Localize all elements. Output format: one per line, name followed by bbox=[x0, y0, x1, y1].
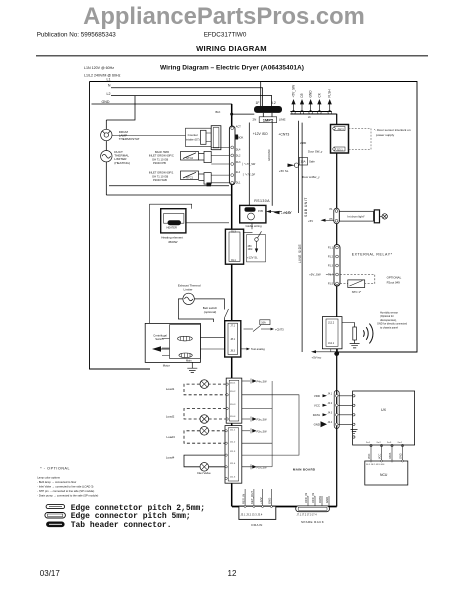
svg-text:Switch: Switch bbox=[155, 337, 164, 341]
svg-text:OPTIONAL: OPTIONAL bbox=[387, 275, 402, 279]
svg-text:- NTP pin → connected to line: - NTP pin → connected to line side (SP m… bbox=[37, 489, 94, 493]
svg-text:(Optional for: (Optional for bbox=[380, 315, 394, 318]
svg-text:DATA: DATA bbox=[313, 413, 320, 417]
svg-text:J3.1 J3.2 J3.3 J3.4: J3.1 J3.2 J3.3 J3.4 bbox=[241, 512, 263, 516]
svg-text:BLK: BLK bbox=[216, 110, 221, 114]
svg-text:J11.1: J11.1 bbox=[230, 430, 236, 432]
svg-text:P1.4: P1.4 bbox=[328, 274, 334, 277]
svg-text:L2: L2 bbox=[107, 92, 111, 96]
svg-text:VCC: VCC bbox=[379, 454, 382, 459]
svg-text:2a.3: 2a.3 bbox=[387, 442, 392, 444]
svg-text:P.05: P.05 bbox=[258, 209, 264, 213]
svg-text:UX: UX bbox=[381, 408, 387, 412]
svg-text:J11.4: J11.4 bbox=[230, 463, 236, 465]
svg-text:+12V: +12V bbox=[259, 497, 263, 504]
svg-text:DL4: DL4 bbox=[236, 149, 241, 152]
svg-text:J10.2: J10.2 bbox=[230, 391, 236, 393]
svg-text:2n: 2n bbox=[308, 115, 311, 119]
svg-text:▏*+7V_DF: ▏*+7V_DF bbox=[242, 172, 256, 176]
svg-text:P1.1: P1.1 bbox=[328, 247, 334, 250]
svg-text:BACK 5965: BACK 5965 bbox=[155, 150, 170, 154]
svg-text:03/17: 03/17 bbox=[40, 569, 61, 578]
svg-text:GND: GND bbox=[400, 453, 403, 459]
svg-text:J8.1: J8.1 bbox=[230, 338, 235, 341]
svg-text:LINE SIDE: LINE SIDE bbox=[298, 244, 302, 263]
svg-text:P2040 5HB: P2040 5HB bbox=[153, 178, 167, 182]
svg-text:CK: CK bbox=[317, 92, 321, 97]
svg-text:+12V ISO: +12V ISO bbox=[253, 132, 268, 136]
svg-text:P2040 IPB: P2040 IPB bbox=[153, 161, 166, 165]
svg-text:+12V SL: +12V SL bbox=[247, 256, 258, 260]
svg-text:AppliancePartsPros.com: AppliancePartsPros.com bbox=[83, 3, 365, 30]
svg-text:* - OPTIONAL: * - OPTIONAL bbox=[40, 467, 70, 471]
svg-text:J7.1: J7.1 bbox=[230, 325, 235, 328]
svg-text:J12.2: J12.2 bbox=[328, 322, 335, 325]
svg-text:J10.1: J10.1 bbox=[230, 382, 236, 384]
svg-text:intake (07): intake (07) bbox=[186, 137, 200, 141]
svg-text:2N: 2N bbox=[253, 118, 257, 122]
svg-text:J10.3: J10.3 bbox=[230, 404, 236, 406]
svg-text:Test analog: Test analog bbox=[251, 347, 265, 351]
svg-text:INLET GROW 60F/C: INLET GROW 60F/C bbox=[149, 154, 174, 158]
svg-text:P1.3: P1.3 bbox=[328, 265, 334, 268]
svg-text:+CNT3: +CNT3 bbox=[275, 328, 284, 332]
svg-text:+5V iso: +5V iso bbox=[312, 356, 322, 360]
svg-text:Limiter: Limiter bbox=[184, 288, 193, 292]
svg-text:Int drum light*: Int drum light* bbox=[347, 215, 365, 219]
svg-text:RES_IN: RES_IN bbox=[241, 494, 245, 504]
svg-text:*- Door sensor interlock on: *- Door sensor interlock on bbox=[374, 128, 411, 132]
svg-text:L1: L1 bbox=[107, 77, 111, 81]
svg-text:MAIN BOARD: MAIN BOARD bbox=[293, 468, 316, 472]
svg-text:+5V_SW: +5V_SW bbox=[292, 85, 296, 98]
svg-text:Lamp color options: Lamp color options bbox=[37, 476, 60, 480]
svg-text:J12.1: J12.1 bbox=[328, 342, 335, 345]
svg-text:1MP5: 1MP5 bbox=[263, 117, 274, 122]
svg-text:P3in_SW: P3in_SW bbox=[257, 419, 268, 422]
svg-text:Globe wiring: Globe wiring bbox=[246, 224, 262, 228]
svg-text:discrepancies),: discrepancies), bbox=[380, 319, 397, 322]
svg-text:Main: Main bbox=[186, 358, 192, 362]
svg-text:VCC_IN: VCC_IN bbox=[304, 493, 308, 503]
svg-text:Wiring Diagram – Electric Drye: Wiring Diagram – Electric Dryer (A064354… bbox=[160, 65, 304, 72]
svg-text:GND: GND bbox=[268, 498, 272, 504]
svg-text:NTC 1*: NTC 1* bbox=[352, 290, 362, 294]
svg-text:2a.2: 2a.2 bbox=[377, 442, 382, 444]
svg-text:SUB UNIT: SUB UNIT bbox=[304, 197, 308, 217]
svg-text:(HEATING): (HEATING) bbox=[114, 161, 130, 165]
svg-text:DL1: DL1 bbox=[236, 181, 241, 184]
svg-text:SPARE RACK: SPARE RACK bbox=[301, 520, 324, 524]
svg-text:2480: 2480 bbox=[300, 141, 307, 145]
svg-text:D5: D5 bbox=[300, 93, 304, 97]
svg-text:16A: 16A bbox=[261, 322, 266, 325]
svg-text:Door sniffer_y: Door sniffer_y bbox=[302, 175, 320, 179]
svg-text:2L4: 2L4 bbox=[236, 171, 241, 174]
svg-text:J4.4: J4.4 bbox=[328, 421, 333, 424]
svg-text:Safe: Safe bbox=[309, 160, 315, 164]
svg-text:GH 71 10 GB: GH 71 10 GB bbox=[152, 174, 168, 178]
svg-text:Counter: Counter bbox=[188, 133, 198, 137]
svg-text:Publication No: 5995685343: Publication No: 5995685343 bbox=[37, 32, 117, 39]
svg-text:P1in_SW: P1in_SW bbox=[257, 466, 268, 469]
svg-text:DATA: DATA bbox=[318, 496, 322, 503]
svg-text:J11.5: J11.5 bbox=[230, 476, 236, 478]
svg-text:J4.3: J4.3 bbox=[328, 412, 333, 415]
svg-text:VCC_IN: VCC_IN bbox=[311, 493, 315, 503]
svg-text:VDD: VDD bbox=[314, 394, 320, 398]
svg-text:Load1: Load1 bbox=[166, 387, 175, 391]
svg-text:DL2: DL2 bbox=[236, 155, 241, 158]
svg-text:1F: 1F bbox=[256, 101, 260, 105]
svg-text:WIRING DIAGRAM: WIRING DIAGRAM bbox=[196, 44, 267, 53]
svg-text:2a.1: 2a.1 bbox=[366, 442, 371, 444]
svg-text:GND: GND bbox=[102, 100, 110, 104]
svg-text:EXTERNAL RELAY*: EXTERNAL RELAY* bbox=[352, 252, 393, 256]
svg-text:DL3: DL3 bbox=[236, 161, 241, 164]
svg-text:- Inlet Valve → connected to l: - Inlet Valve → connected to line side (… bbox=[37, 485, 93, 489]
svg-text:Load3: Load3 bbox=[166, 435, 175, 439]
svg-text:J8.3: J8.3 bbox=[230, 350, 235, 353]
svg-text:LINE: LINE bbox=[279, 118, 286, 122]
svg-text:Door SW_y: Door SW_y bbox=[308, 150, 323, 154]
svg-text:FLSH: FLSH bbox=[328, 89, 332, 98]
svg-text:J4.1: J4.1 bbox=[328, 393, 333, 396]
svg-text:DL3: DL3 bbox=[231, 231, 236, 234]
svg-text:45C: 45C bbox=[248, 246, 253, 248]
svg-text:J7.1 J7.2 J7.3 J7.4: J7.1 J7.2 J7.3 J7.4 bbox=[297, 514, 318, 517]
svg-text:NTC1: NTC1 bbox=[186, 175, 194, 179]
svg-text:DL1: DL1 bbox=[231, 259, 236, 262]
svg-text:RS130A: RS130A bbox=[254, 199, 270, 203]
svg-text:GND for directly connected: GND for directly connected bbox=[377, 323, 408, 326]
svg-text:INLET GROW 60F/1: INLET GROW 60F/1 bbox=[149, 171, 174, 175]
svg-text:Load2: Load2 bbox=[166, 415, 175, 419]
svg-text:J11.2: J11.2 bbox=[230, 442, 236, 444]
svg-text:+5V SL: +5V SL bbox=[279, 169, 289, 173]
svg-text:J12.1: J12.1 bbox=[337, 127, 344, 131]
svg-text:HEATER: HEATER bbox=[167, 225, 177, 229]
svg-text:4500W: 4500W bbox=[168, 240, 178, 244]
svg-text:L1/L2 240V/M @ 60Hz: L1/L2 240V/M @ 60Hz bbox=[84, 74, 121, 78]
svg-text:GND: GND bbox=[314, 423, 320, 427]
svg-text:J10.4: J10.4 bbox=[230, 416, 236, 418]
svg-text:Load4: Load4 bbox=[166, 455, 175, 459]
svg-text:DRAIN: DRAIN bbox=[251, 523, 262, 527]
svg-text:THERMOSTAT: THERMOSTAT bbox=[119, 137, 140, 141]
svg-text:GND: GND bbox=[325, 497, 329, 503]
svg-text:+12V: +12V bbox=[284, 210, 292, 214]
svg-text:to chassis panel: to chassis panel bbox=[380, 326, 398, 329]
svg-text:- Drain pump → connected to th: - Drain pump → connected to the safe (SP… bbox=[37, 494, 98, 498]
svg-text:P1.2: P1.2 bbox=[328, 256, 334, 259]
svg-text:Humidity sensor: Humidity sensor bbox=[380, 312, 398, 315]
svg-text:GH 71 10 GB: GH 71 10 GB bbox=[152, 157, 168, 161]
svg-text:VCC: VCC bbox=[314, 404, 320, 408]
svg-text:power supply: power supply bbox=[376, 133, 395, 137]
svg-text:J4.1 J4.2 J4.3 J4.4: J4.1 J4.2 J4.3 J4.4 bbox=[366, 464, 385, 466]
svg-text:P4in_SW: P4in_SW bbox=[257, 381, 268, 384]
svg-text:L1N 120V @ 60Hz: L1N 120V @ 60Hz bbox=[84, 66, 114, 70]
svg-text:J11.3: J11.3 bbox=[230, 451, 236, 453]
svg-text:P1: P1 bbox=[329, 208, 333, 211]
svg-text:Motor: Motor bbox=[163, 363, 170, 367]
svg-text:J4.2: J4.2 bbox=[328, 402, 333, 405]
svg-text:NTC2: NTC2 bbox=[186, 156, 194, 160]
svg-text:- Bulb lamp → connected to flo: - Bulb lamp → connected to flour bbox=[37, 480, 76, 484]
svg-text:NCU: NCU bbox=[380, 473, 388, 477]
svg-text:+5V_SW: +5V_SW bbox=[309, 273, 321, 277]
svg-text:KEY_OUT: KEY_OUT bbox=[250, 491, 254, 504]
svg-text:N: N bbox=[108, 84, 111, 88]
svg-text:EFDC317TIW0: EFDC317TIW0 bbox=[204, 32, 247, 39]
svg-text:P2in_SW: P2in_SW bbox=[257, 430, 268, 433]
svg-text:12: 12 bbox=[228, 569, 237, 578]
svg-text:100c: 100c bbox=[248, 249, 254, 251]
svg-text:P1.5: P1.5 bbox=[328, 283, 334, 286]
svg-text:BOK: BOK bbox=[238, 137, 244, 140]
svg-text:+CNT3: +CNT3 bbox=[278, 133, 289, 137]
svg-text:GROUND: GROUND bbox=[267, 149, 271, 161]
svg-text:J13.1: J13.1 bbox=[336, 148, 343, 152]
svg-text:VDD: VDD bbox=[368, 454, 371, 459]
svg-text:ACT: ACT bbox=[236, 125, 241, 128]
svg-text:2a.4: 2a.4 bbox=[398, 442, 403, 444]
svg-text:Tab header connector.: Tab header connector. bbox=[71, 521, 172, 530]
svg-text:P2out 049: P2out 049 bbox=[387, 280, 401, 284]
svg-text:(optional): (optional) bbox=[204, 310, 217, 314]
svg-text:GND: GND bbox=[309, 90, 313, 98]
svg-text:▏*+7V_SW: ▏*+7V_SW bbox=[241, 162, 255, 166]
svg-text:Inlet Valve: Inlet Valve bbox=[197, 471, 211, 475]
svg-text:DATA: DATA bbox=[389, 452, 392, 459]
svg-text:16A: 16A bbox=[301, 160, 306, 164]
svg-text:+5V: +5V bbox=[308, 219, 313, 223]
svg-text:5.2: 5.2 bbox=[271, 101, 276, 105]
